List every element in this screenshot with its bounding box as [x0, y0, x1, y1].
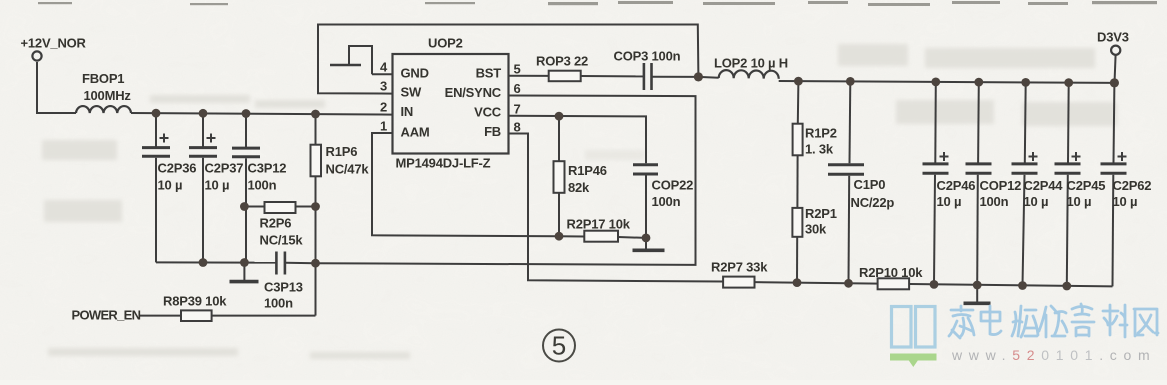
svg-text:R2P17 10k: R2P17 10k: [567, 217, 631, 232]
resistor R2P6: [244, 202, 315, 213]
svg-text:10 µ: 10 µ: [205, 178, 230, 193]
svg-text:100MHz: 100MHz: [84, 88, 132, 103]
wire pin 8 FB down to feedback line: [509, 134, 724, 282]
node R2P6 left: [240, 202, 249, 211]
svg-text:IN: IN: [401, 104, 414, 119]
wire ground rail (left): [156, 261, 276, 263]
char 5 zi: [1072, 304, 1094, 336]
svg-text:5: 5: [514, 62, 521, 77]
wire D3V3 output rail: [779, 81, 1115, 83]
capacitor COP22: [633, 165, 658, 238]
svg-text:100n: 100n: [980, 194, 1009, 209]
node rail C2P45: [1064, 78, 1073, 87]
svg-text:LOP2 10 µ H: LOP2 10 µ H: [714, 56, 788, 71]
svg-text:R2P6: R2P6: [260, 216, 292, 231]
node R2P6 right: [311, 202, 320, 211]
wire pin 5 BST: [509, 75, 549, 77]
svg-text:SW: SW: [401, 85, 422, 100]
svg-text:NC/22p: NC/22p: [851, 195, 895, 210]
wire ROP3 to COP3: [581, 75, 643, 77]
svg-text:AAM: AAM: [401, 125, 430, 140]
node rail dot C3P12: [242, 109, 251, 118]
svg-text:FBOP1: FBOP1: [82, 71, 124, 86]
node rail dot R1P6: [311, 110, 320, 119]
svg-text:C3P13: C3P13: [264, 280, 303, 295]
wire main +12V rail to pin 2 IN: [131, 113, 393, 115]
svg-text:6: 6: [514, 81, 521, 96]
svg-text:7: 7: [514, 102, 521, 117]
svg-text:C2P44: C2P44: [1024, 178, 1064, 193]
capacitor C2P45: [1055, 83, 1081, 286]
node +12V_NOR terminal: [32, 51, 41, 60]
node VCC: [555, 112, 564, 121]
capacitor C2P46: [923, 82, 949, 285]
svg-text:C2P46: C2P46: [937, 178, 976, 193]
svg-text:BST: BST: [476, 66, 502, 81]
svg-text:D3V3: D3V3: [1097, 30, 1129, 45]
svg-text:1. 3k: 1. 3k: [805, 142, 834, 157]
resistor R1P46: [554, 116, 565, 236]
wire pin 6 EN/SYNC down and left: [316, 96, 696, 265]
scan ghost smudges: [42, 44, 1117, 359]
resistor R2P17: [559, 231, 646, 242]
svg-text:R1P46: R1P46: [568, 163, 607, 178]
svg-text:5: 5: [552, 331, 566, 361]
svg-text:100n: 100n: [264, 296, 293, 311]
node rail C2P46: [931, 78, 940, 87]
op-amp U1 : IC UOP2 body: [393, 54, 509, 154]
node C3P12 gnd: [240, 258, 249, 267]
svg-text:82k: 82k: [568, 180, 590, 195]
svg-text:10 µ: 10 µ: [1024, 194, 1049, 209]
wire D3V3 terminal to rail: [1115, 55, 1116, 83]
node EN: [311, 259, 320, 268]
node gnd C2P45: [1062, 282, 1071, 291]
svg-text:100n: 100n: [652, 194, 681, 209]
node COP22 gnd: [642, 234, 651, 243]
node C2P37 gnd: [199, 258, 208, 267]
svg-text:8: 8: [514, 120, 521, 135]
capacitor C2P44: [1012, 82, 1038, 285]
svg-text:3: 3: [380, 79, 387, 94]
svg-text:R2P10 10k: R2P10 10k: [859, 265, 923, 280]
svg-text:R2P7 33k: R2P7 33k: [711, 260, 768, 275]
node gnd COP12: [973, 281, 982, 290]
svg-text:30k: 30k: [805, 222, 827, 237]
resistor R8P39: [139, 310, 316, 321]
node rail C2P44: [1021, 78, 1030, 87]
char 1 jia: [949, 306, 974, 338]
pulse waveform symbol: [330, 46, 372, 74]
node rail dot C2P37: [199, 109, 208, 118]
capacitor C3P13 (series): [276, 252, 315, 275]
char 7 wang: [1134, 309, 1158, 336]
capacitor C2P36: [142, 113, 170, 262]
capacitor C2P62: [1101, 83, 1127, 287]
node gnd C2P44: [1018, 281, 1027, 290]
svg-text:COP3 100n: COP3 100n: [614, 49, 681, 64]
circled number 5: [543, 330, 575, 362]
node rail C1P0: [846, 77, 855, 86]
svg-text:www.520101.com: www.520101.com: [951, 347, 1156, 363]
node fb C1P0: [844, 279, 853, 288]
node AAM junction: [555, 232, 564, 241]
svg-text:C2P36: C2P36: [158, 161, 197, 176]
wire pin 1 AAM: [372, 133, 559, 236]
wire pin 4 GND: [372, 73, 393, 75]
capacitor COP3 (series): [644, 63, 699, 90]
node gnd C2P46: [930, 280, 939, 289]
inductor LOP2: [698, 70, 778, 79]
svg-text:C1P0: C1P0: [854, 177, 886, 192]
svg-text:10 µ: 10 µ: [158, 178, 183, 193]
svg-text:100n: 100n: [248, 178, 277, 193]
svg-text:MP1494DJ-LF-Z: MP1494DJ-LF-Z: [396, 156, 491, 171]
char 2 dian: [981, 306, 1001, 335]
wire pin 3 SW to bootstrap loop: [318, 25, 698, 94]
watermark chinese characters (hand strokes): [949, 304, 1158, 338]
top edge scan marks: [38, 1, 1157, 6]
svg-text:10 µ: 10 µ: [1067, 194, 1092, 209]
wire EN node down to POWER_EN row: [315, 263, 317, 315]
node SW: [694, 72, 703, 81]
svg-text:POWER_EN: POWER_EN: [72, 308, 141, 323]
svg-text:COP22: COP22: [652, 178, 694, 193]
svg-text:R2P1: R2P1: [805, 206, 837, 221]
svg-text:COP12: COP12: [980, 178, 1022, 193]
resistor R1P2: [793, 81, 803, 208]
capacitor C3P12: [232, 113, 260, 262]
watermark green ribbon: [890, 354, 937, 368]
node rail R1P2: [794, 77, 803, 86]
svg-text:10 µ: 10 µ: [1113, 194, 1138, 209]
char 3 wei: [1012, 306, 1038, 337]
node rail COP12: [974, 78, 983, 87]
svg-text:UOP2: UOP2: [428, 36, 463, 51]
watermark url www.520101.com: [951, 347, 1156, 363]
resistor R1P6: [311, 114, 322, 263]
node rail D3V3: [1110, 78, 1119, 87]
capacitor C1P0: [828, 81, 864, 283]
svg-text:NC/15k: NC/15k: [260, 233, 304, 248]
svg-text:10 µ: 10 µ: [937, 194, 962, 209]
svg-text:4: 4: [380, 60, 388, 75]
svg-text:C2P62: C2P62: [1113, 178, 1152, 193]
svg-text:VCC: VCC: [474, 105, 502, 120]
ground (output): [964, 285, 991, 303]
svg-text:C2P37: C2P37: [205, 161, 244, 176]
wire pin 7 VCC: [509, 116, 647, 164]
wire from +12V terminal down and right: [37, 62, 76, 113]
svg-text:R1P2: R1P2: [805, 126, 837, 141]
ground (COP22): [633, 238, 665, 250]
svg-text:2: 2: [380, 100, 387, 115]
svg-text:R1P6: R1P6: [326, 144, 358, 159]
svg-text:+12V_NOR: +12V_NOR: [21, 36, 87, 51]
resistor R2P1: [792, 208, 802, 283]
ground (left): [230, 263, 259, 282]
char 4 xiu: [1039, 306, 1067, 337]
capacitor C2P37: [189, 113, 217, 262]
node rail dot C2P36: [152, 109, 161, 118]
resistor ROP3: [549, 71, 581, 82]
svg-text:1: 1: [380, 119, 387, 134]
svg-text:GND: GND: [401, 66, 429, 81]
svg-text:NC/47k: NC/47k: [326, 162, 370, 177]
resistor R2P10: [878, 278, 910, 289]
char 6 liao: [1103, 305, 1127, 337]
node D3V3 terminal: [1111, 46, 1120, 55]
svg-text:C3P12: C3P12: [248, 161, 287, 176]
watermark book icon: [892, 307, 936, 348]
node fb R2P1: [793, 278, 802, 287]
svg-text:ROP3 22: ROP3 22: [536, 54, 588, 69]
resistor R2P7: [723, 277, 754, 288]
svg-text:EN/SYNC: EN/SYNC: [445, 85, 502, 100]
inductor FBOP1: [76, 106, 131, 113]
svg-text:R8P39 10k: R8P39 10k: [163, 294, 227, 309]
capacitor COP12: [966, 82, 992, 285]
wire feedback/ground line right section: [755, 282, 1113, 286]
svg-text:C2P45: C2P45: [1067, 178, 1106, 193]
svg-text:FB: FB: [484, 124, 501, 139]
